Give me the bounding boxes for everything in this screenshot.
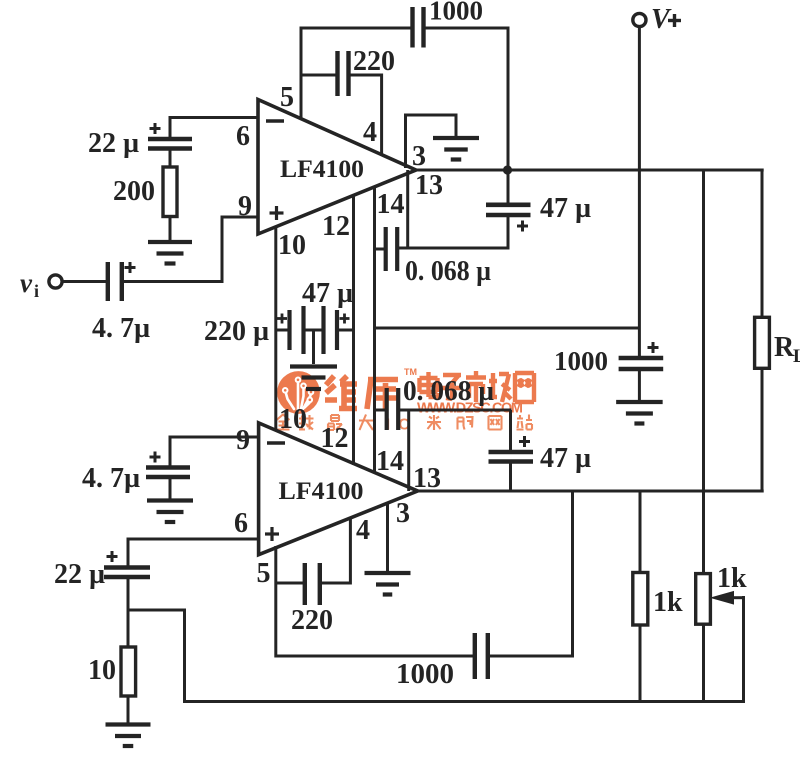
svg-text:0. 068 µ: 0. 068 µ <box>405 256 491 287</box>
pin label 10 of U1 <box>278 230 306 261</box>
wire pin6 U1 <box>170 116 258 139</box>
capacitor 47µ U2 output <box>489 410 534 491</box>
wire 0.068 to 47µ top <box>397 247 510 250</box>
svg-text:1000: 1000 <box>396 659 454 690</box>
watermark dzsc.com logo and text (decorative) <box>277 367 535 434</box>
wire RL branch top <box>761 169 764 318</box>
wire pin10 to 220µ <box>276 329 290 332</box>
svg-text:10: 10 <box>278 230 306 261</box>
svg-text:22 µ: 22 µ <box>88 128 139 159</box>
terminal vi <box>20 268 62 301</box>
label 1k <box>653 587 683 618</box>
wire pin9 U2 <box>170 436 259 468</box>
pin label 13 of U1 <box>415 170 443 201</box>
label 220 bottom <box>291 605 333 636</box>
wire pin13 U2 riser <box>407 409 410 491</box>
pin label 13 of U2 <box>413 463 441 494</box>
svg-text:5: 5 <box>280 82 294 113</box>
ground below 10 <box>106 725 151 747</box>
svg-text:LF4100: LF4100 <box>279 478 364 505</box>
capacitor 22µ bottom <box>104 551 150 577</box>
svg-text:3: 3 <box>396 498 410 529</box>
pin label 12 of U1 <box>322 211 350 242</box>
capacitor 1000 top feedback <box>413 7 424 48</box>
capacitor 0.068µ U1 <box>375 227 398 271</box>
svg-text:220: 220 <box>291 605 333 636</box>
pin label 10 of U2 <box>279 404 307 435</box>
svg-text:12: 12 <box>321 423 349 454</box>
ground below 200 <box>148 242 192 264</box>
wire pin9 U1 <box>222 216 258 282</box>
svg-text:13: 13 <box>413 463 441 494</box>
label 220µ <box>204 316 269 347</box>
wire 10 to ground <box>127 696 130 723</box>
svg-text:v: v <box>20 268 33 298</box>
wire U2 output <box>416 490 764 493</box>
wire 220 to pin4 U1 <box>349 74 382 157</box>
wire mid caps to ground <box>304 330 324 364</box>
svg-text:R: R <box>774 332 795 363</box>
wire 220 left stub <box>301 74 337 77</box>
wire 220 to pin4 U2 <box>320 519 351 585</box>
wire RL branch bottom <box>761 368 764 492</box>
capacitor 220 U2 <box>305 563 320 605</box>
capacitor 1000 bypass <box>619 342 664 369</box>
wire pin5 U1 riser <box>300 27 303 120</box>
node junction dot at U1 output <box>503 165 512 174</box>
wire 1000 bypass to ground <box>638 369 641 400</box>
svg-text:6: 6 <box>234 508 248 539</box>
svg-text:LF4100: LF4100 <box>280 156 364 183</box>
svg-text:22 µ: 22 µ <box>54 559 105 590</box>
capacitor 220 U1 <box>338 51 349 96</box>
svg-text:9: 9 <box>236 425 250 456</box>
wire pin13 U1 drop <box>406 170 409 250</box>
wire pot branch <box>702 169 705 573</box>
label 47µ bottom right <box>540 443 591 474</box>
svg-text:4. 7µ: 4. 7µ <box>92 313 150 344</box>
pin label 6 of U2 <box>234 508 248 539</box>
op-amp U2 LF4100 (bottom) <box>259 423 418 555</box>
svg-text:5: 5 <box>257 558 271 589</box>
wire 22µ to node <box>127 577 130 647</box>
wire pin5 U2 drop <box>274 546 277 658</box>
svg-text:1k: 1k <box>653 587 683 618</box>
svg-text:200: 200 <box>113 176 155 207</box>
label 4.7µ input <box>92 313 150 344</box>
label 22µ bottom <box>54 559 105 590</box>
svg-text:3: 3 <box>412 141 426 172</box>
label 4.7µ bottom <box>82 463 140 494</box>
wire top feedback left <box>300 27 412 30</box>
terminal V+ <box>633 4 681 35</box>
wire pin6 U2 <box>128 538 259 567</box>
wire 47µ mid to pin12 bus <box>337 329 354 332</box>
wire V+ rail down <box>638 27 641 358</box>
svg-text:47 µ: 47 µ <box>540 443 591 474</box>
wire 1000 fb right <box>488 490 573 658</box>
capacitor 4.7µ input <box>108 262 136 301</box>
pin label 5 of U2 <box>257 558 271 589</box>
pin label 4 of U2 <box>356 515 370 546</box>
pin label 5 of U1 <box>280 82 294 113</box>
svg-text:4: 4 <box>356 515 370 546</box>
pot wiper arrow <box>712 592 744 704</box>
potentiometer 1k <box>696 574 711 703</box>
svg-text:1000: 1000 <box>429 0 483 26</box>
svg-text:10: 10 <box>88 655 116 686</box>
svg-text:L: L <box>793 346 800 367</box>
svg-text:220: 220 <box>353 46 395 77</box>
wire 0.068 to 47µ bottom <box>398 409 512 412</box>
label 220 top <box>353 46 395 77</box>
label 10 <box>88 655 116 686</box>
wire pin14 bus U1-U2 <box>373 186 376 474</box>
wire node to bottom rail <box>128 609 185 704</box>
svg-text:4: 4 <box>363 117 377 148</box>
wire pin14 to V+ rail <box>375 327 640 330</box>
svg-text:10: 10 <box>279 404 307 435</box>
svg-text:13: 13 <box>415 170 443 201</box>
svg-text:4. 7µ: 4. 7µ <box>82 463 140 494</box>
ground below 1000 bypass <box>616 402 663 424</box>
svg-text:1k: 1k <box>717 563 747 594</box>
ground at pin3 U2 <box>365 573 411 595</box>
capacitor 220µ <box>277 306 304 354</box>
pin label 9 of U2 <box>236 425 250 456</box>
wire pin12 bus U1-U2 <box>352 195 355 466</box>
pin label 6 of U1 <box>236 121 250 152</box>
capacitor 47µ U1 output <box>486 170 531 250</box>
wire top feedback right <box>424 27 509 171</box>
pin label 9 of U1 <box>238 191 252 222</box>
resistor 1k <box>633 490 648 704</box>
wire pin10 bus U1-U2 <box>274 226 277 431</box>
capacitor 4.7µ U2 <box>146 452 190 478</box>
label 1000 bottom <box>396 659 454 690</box>
pin label 14 of U1 <box>377 189 405 220</box>
svg-text:47 µ: 47 µ <box>302 278 353 309</box>
label 47µ mid <box>302 278 353 309</box>
resistor 200 <box>163 167 177 217</box>
wire U1 output <box>414 169 764 172</box>
wire bottom rail <box>183 700 745 703</box>
svg-text:12: 12 <box>322 211 350 242</box>
label 200 <box>113 176 155 207</box>
wire 1000 fb left <box>276 655 474 658</box>
capacitor 0.068µ U2 <box>375 388 399 430</box>
resistor 10 <box>121 647 136 696</box>
wire 4.7µ to pin9 riser <box>122 280 224 283</box>
pin label 14 of U2 <box>376 446 404 477</box>
svg-text:14: 14 <box>376 446 404 477</box>
label 0.068µ bottom <box>403 376 494 407</box>
svg-text:0. 068 µ: 0. 068 µ <box>403 376 494 407</box>
wire 22µ to 200 <box>169 149 172 168</box>
label 1000 top <box>429 0 483 26</box>
svg-text:i: i <box>34 281 39 301</box>
wire pin3 U2 drop <box>386 502 389 571</box>
ground below 4.7µ U2 <box>147 501 193 523</box>
label 22µ top <box>88 128 139 159</box>
wire 4.7µ U2 to ground <box>169 477 172 499</box>
label 1k pot <box>717 563 747 594</box>
wire 200 to ground <box>169 217 172 243</box>
pin label 12 of U2 <box>321 423 349 454</box>
capacitor 22µ top <box>148 123 192 149</box>
ground mid decoupling <box>290 367 337 390</box>
svg-text:220 µ: 220 µ <box>204 316 269 347</box>
svg-text:47 µ: 47 µ <box>540 193 591 224</box>
svg-text:14: 14 <box>377 189 405 220</box>
svg-text:6: 6 <box>236 121 250 152</box>
label 1000 bypass <box>554 346 608 376</box>
wire 220 U2 left <box>276 582 304 585</box>
capacitor 47µ mid <box>324 306 350 354</box>
pin label 4 of U1 <box>363 117 377 148</box>
pin label 3 of U2 <box>396 498 410 529</box>
label 0.068µ top <box>405 256 491 287</box>
label 47µ top right <box>540 193 591 224</box>
pin label 3 of U1 <box>412 141 426 172</box>
svg-text:1000: 1000 <box>554 346 608 376</box>
capacitor 1000 U2 feedback <box>475 633 488 679</box>
wire vi to 4.7µ <box>63 280 107 283</box>
label RL <box>774 332 800 367</box>
wire pin3 U1 hook <box>406 115 457 168</box>
op-amp U1 LF4100 (top) <box>258 100 416 235</box>
ground at pin3 U1 <box>433 138 479 160</box>
resistor RL <box>755 317 770 368</box>
